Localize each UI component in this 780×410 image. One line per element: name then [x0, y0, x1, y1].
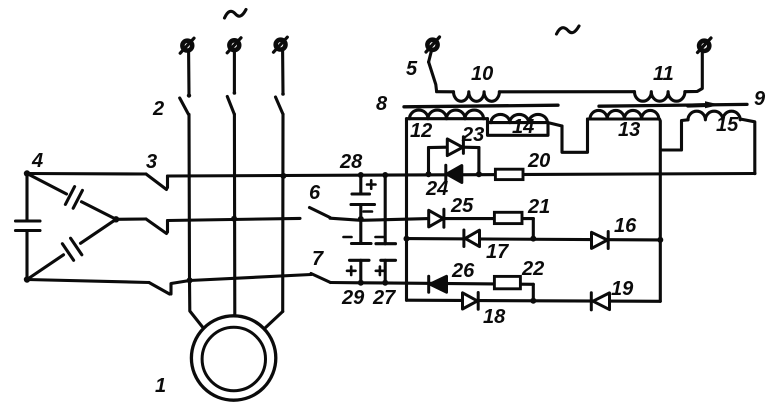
svg-text:13: 13: [618, 119, 640, 141]
svg-text:20: 20: [527, 150, 550, 172]
svg-text:3: 3: [146, 151, 157, 173]
svg-text:10: 10: [471, 63, 493, 85]
svg-text:11: 11: [653, 63, 674, 85]
svg-text:15: 15: [716, 114, 739, 136]
svg-text:26: 26: [451, 260, 475, 282]
svg-text:14: 14: [512, 116, 534, 138]
svg-text:4: 4: [31, 150, 43, 172]
svg-text:28: 28: [339, 151, 363, 173]
svg-text:18: 18: [483, 306, 506, 328]
svg-text:8: 8: [376, 93, 388, 115]
svg-text:23: 23: [461, 124, 484, 146]
svg-text:29: 29: [341, 287, 365, 309]
svg-text:2: 2: [152, 98, 164, 120]
svg-text:9: 9: [754, 88, 766, 110]
svg-text:1: 1: [155, 375, 166, 397]
svg-text:21: 21: [527, 196, 550, 218]
svg-text:22: 22: [521, 258, 544, 280]
svg-text:12: 12: [410, 120, 432, 142]
svg-text:5: 5: [406, 58, 418, 80]
svg-text:19: 19: [611, 278, 634, 300]
svg-text:6: 6: [309, 182, 321, 204]
svg-text:24: 24: [425, 178, 448, 200]
svg-text:27: 27: [372, 287, 396, 309]
svg-text:7: 7: [312, 248, 324, 270]
svg-text:16: 16: [614, 215, 637, 237]
svg-text:25: 25: [450, 195, 474, 217]
svg-text:17: 17: [486, 241, 509, 263]
